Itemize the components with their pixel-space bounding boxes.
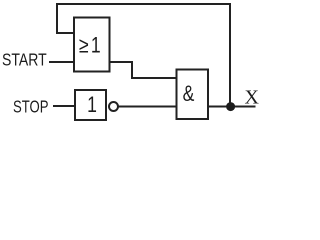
wire OR output to AND input — [110, 62, 177, 78]
wire START input — [49, 61, 74, 63]
junction dot at node X — [226, 102, 235, 111]
and-gate U3 box — [177, 70, 209, 120]
wire NOT output to AND input — [118, 106, 176, 108]
wire STOP input — [53, 105, 75, 107]
svg-text:X: X — [245, 87, 260, 109]
svg-text:STOP: STOP — [13, 98, 49, 117]
not-gate U2 box — [75, 90, 106, 120]
wire feedback stub into OR gate — [56, 32, 74, 34]
wire AND output to X — [208, 106, 256, 108]
svg-text:&: & — [183, 82, 195, 106]
not-gate U2 inversion bubble — [109, 102, 118, 111]
or-gate U1 box — [74, 18, 110, 72]
svg-text:1: 1 — [87, 93, 97, 117]
wire feedback loop from node X to OR input — [57, 4, 230, 106]
svg-text:≥1: ≥1 — [79, 34, 103, 58]
svg-text:START: START — [2, 50, 47, 70]
